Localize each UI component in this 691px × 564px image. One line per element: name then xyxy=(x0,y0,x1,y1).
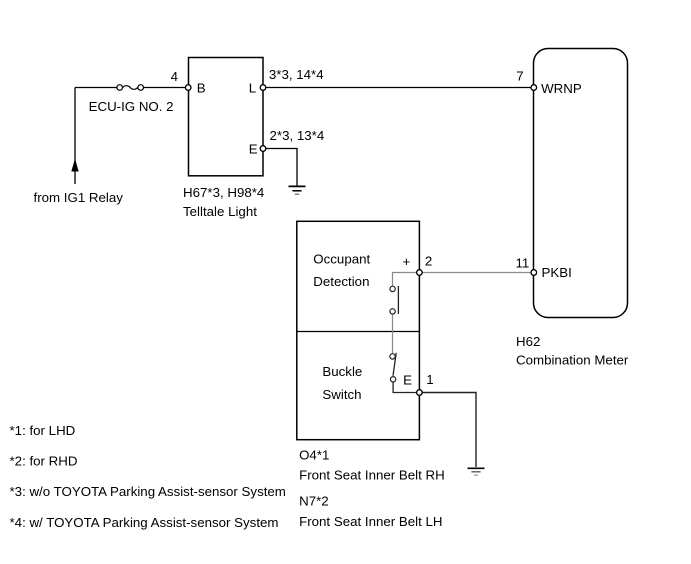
svg-text:Front Seat Inner Belt RH: Front Seat Inner Belt RH xyxy=(299,468,445,483)
svg-text:Telltale Light: Telltale Light xyxy=(183,204,257,219)
svg-text:*2: for RHD: *2: for RHD xyxy=(10,454,78,469)
svg-text:ECU-IG NO. 2: ECU-IG NO. 2 xyxy=(89,99,174,114)
svg-text:O4*1: O4*1 xyxy=(299,447,329,462)
svg-text:WRNP: WRNP xyxy=(541,81,582,96)
svg-text:Switch: Switch xyxy=(322,387,361,402)
svg-text:2: 2 xyxy=(425,254,432,269)
svg-text:*3: w/o TOYOTA Parking Assist-: *3: w/o TOYOTA Parking Assist-sensor Sys… xyxy=(10,484,286,499)
svg-text:3*3, 14*4: 3*3, 14*4 xyxy=(269,67,324,82)
svg-text:N7*2: N7*2 xyxy=(299,494,329,509)
svg-text:L: L xyxy=(249,80,256,95)
svg-text:Occupant: Occupant xyxy=(313,252,370,267)
svg-text:2*3, 13*4: 2*3, 13*4 xyxy=(270,128,325,143)
svg-text:E: E xyxy=(249,141,258,156)
svg-text:4: 4 xyxy=(171,69,178,84)
svg-text:E: E xyxy=(403,373,412,388)
svg-text:PKBI: PKBI xyxy=(542,265,572,280)
svg-text:Detection: Detection xyxy=(313,274,369,289)
svg-text:Front Seat Inner Belt LH: Front Seat Inner Belt LH xyxy=(299,514,442,529)
svg-text:+: + xyxy=(403,254,411,269)
svg-text:*4: w/ TOYOTA Parking Assist-s: *4: w/ TOYOTA Parking Assist-sensor Syst… xyxy=(10,515,279,530)
svg-text:7: 7 xyxy=(516,69,523,84)
svg-text:1: 1 xyxy=(426,372,433,387)
svg-text:B: B xyxy=(197,80,206,95)
svg-text:H67*3, H98*4: H67*3, H98*4 xyxy=(183,185,264,200)
svg-text:11: 11 xyxy=(516,256,530,271)
svg-text:from IG1 Relay: from IG1 Relay xyxy=(34,190,124,205)
svg-text:Combination Meter: Combination Meter xyxy=(516,353,629,368)
svg-text:*1: for LHD: *1: for LHD xyxy=(10,423,76,438)
svg-text:Buckle: Buckle xyxy=(322,364,362,379)
svg-text:H62: H62 xyxy=(516,334,540,349)
